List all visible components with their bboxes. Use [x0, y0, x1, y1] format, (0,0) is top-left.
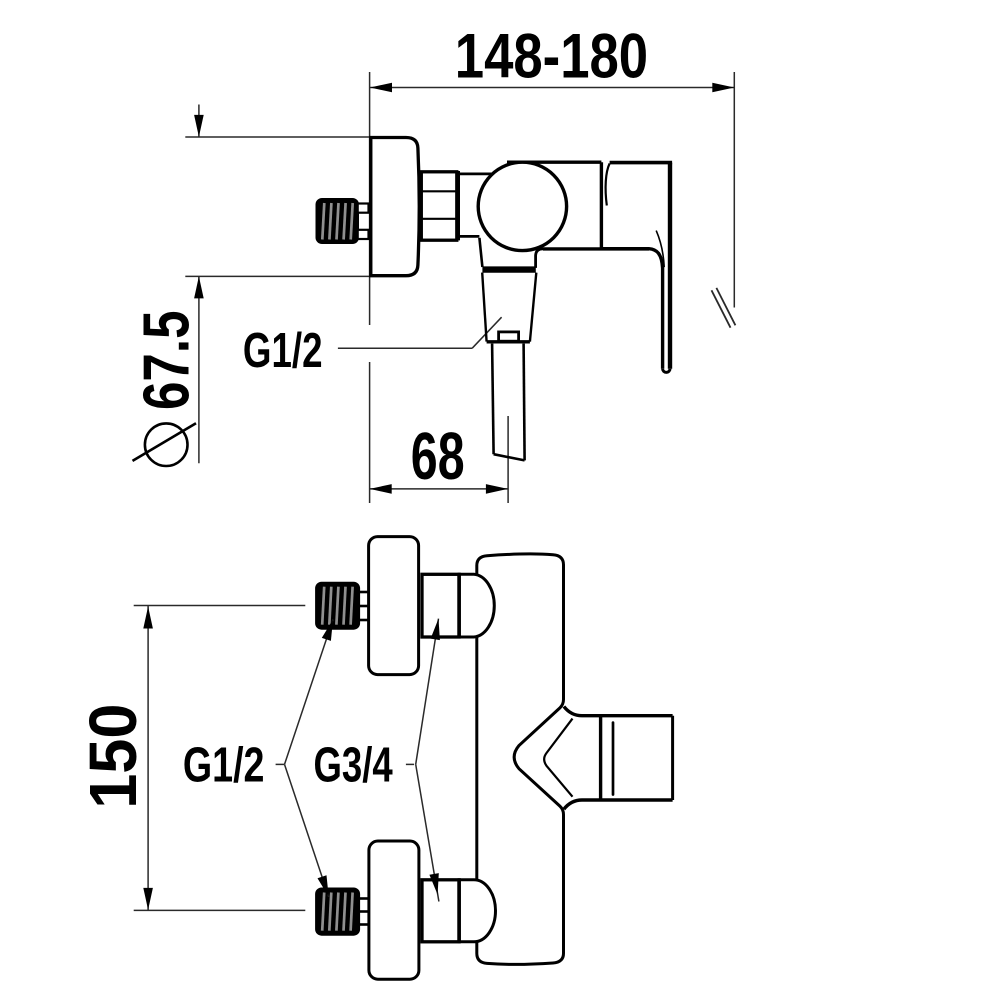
svg-text:G1/2: G1/2: [183, 738, 265, 792]
svg-text:G3/4: G3/4: [314, 738, 394, 792]
svg-text:67.5: 67.5: [130, 311, 203, 411]
svg-text:150: 150: [77, 704, 151, 809]
svg-text:68: 68: [411, 420, 465, 494]
svg-text:148-180: 148-180: [455, 22, 648, 92]
svg-text:G1/2: G1/2: [243, 324, 323, 378]
